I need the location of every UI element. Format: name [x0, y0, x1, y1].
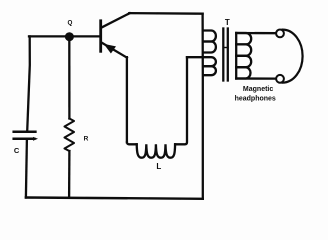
capacitor C	[14, 132, 36, 139]
transistor Q1 base bar	[99, 21, 102, 52]
transformer T primary winding loops	[203, 31, 215, 42]
resistor R lower lead	[68, 151, 71, 198]
wire right rail (transformer primary spine / supply return)	[201, 14, 203, 199]
transformer T core	[222, 29, 224, 81]
headphones headband arc	[283, 30, 303, 83]
inductor L loops	[137, 144, 175, 157]
svg-text:T: T	[225, 18, 230, 27]
resistor R zigzag	[65, 119, 75, 152]
inductor L left corner	[127, 142, 137, 144]
svg-text:headphones: headphones	[235, 95, 276, 102]
resistor R upper lead	[68, 36, 70, 118]
transistor Q1 emitter arrow (PNP)	[104, 44, 116, 54]
transformer T secondary spine	[235, 33, 237, 79]
wire left rail upper (C branch above capacitor)	[27, 36, 30, 131]
transistor Q1 emitter lead	[101, 42, 127, 57]
capacitor C arrow tip on lower plate	[33, 137, 38, 141]
wire bottom rail	[26, 198, 203, 199]
svg-text:L: L	[156, 162, 161, 171]
wire top rail (collector to transformer)	[129, 12, 202, 15]
inductor L right corner	[175, 57, 187, 144]
wire base (node between C, R and transistor base)	[29, 35, 100, 37]
wire emitter vertical to L	[126, 57, 128, 142]
transformer T core tick	[224, 47, 228, 49]
wire left rail lower (C branch below capacitor)	[26, 139, 27, 197]
svg-text:Magnetic: Magnetic	[243, 86, 273, 93]
transistor Q1 collector lead	[101, 13, 130, 28]
svg-text:Q: Q	[68, 19, 73, 26]
svg-text:R: R	[84, 136, 89, 143]
svg-text:C: C	[14, 146, 20, 155]
wire tap from L to transformer primary	[187, 56, 203, 58]
node A junction dot (base/R/C)	[65, 32, 74, 41]
wire secondary top lead to headphones	[236, 32, 275, 35]
wire secondary bottom lead to headphones	[236, 77, 275, 79]
headphones top earpiece	[276, 30, 284, 38]
headphones bottom earpiece	[276, 75, 284, 83]
transformer T secondary winding loops	[236, 33, 251, 44]
